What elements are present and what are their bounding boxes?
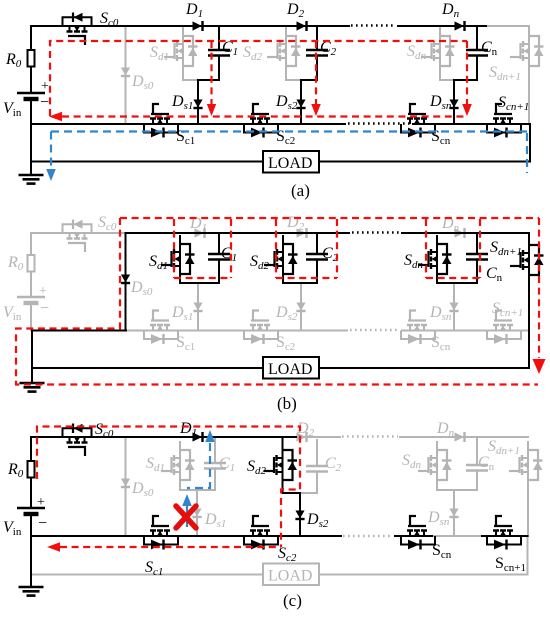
wire Ds1 branch (grey): [197, 283, 199, 331]
wire Ds2 branch (grey): [300, 283, 302, 331]
wire: C2 bottom stub: [316, 260, 318, 284]
diode D2 (inactive): [297, 228, 307, 238]
transistor Scn+1: [487, 104, 521, 138]
capacitor C1: [208, 254, 230, 260]
transistor Sc1: [144, 104, 178, 138]
ellipsis top rail: [352, 231, 400, 233]
wire: Sd1 to C1 bottom: [180, 282, 219, 284]
capacitor C1: [208, 50, 230, 56]
wire: bottom bus right: [319, 367, 529, 369]
red path: left+bottom loop: [16, 218, 538, 385]
wire: C2 bottom to Ds2: [301, 56, 317, 125]
ellipsis top rail: [351, 24, 396, 26]
wire: bus left: [32, 330, 126, 332]
wire: load row right (grey): [319, 574, 528, 576]
wire: Ds1 branch (grey): [196, 490, 198, 536]
battery Vin: [17, 93, 45, 99]
red box celln: [426, 219, 480, 278]
wire top right (grey): [486, 25, 529, 27]
transistor Scn+1 (inactive): [487, 311, 521, 345]
transistor Sd1 (inactive): [161, 441, 195, 489]
resistor R0 (grey): [28, 255, 35, 272]
red path bottom c: [60, 546, 281, 548]
transistor Sc0 (inactive): [63, 220, 92, 253]
svg-text:LOAD: LOAD: [268, 568, 312, 585]
wire: right leg to load row (grey): [527, 536, 529, 575]
diode Dn (inactive): [455, 228, 465, 238]
wire: Sd1 bottom (grey): [180, 489, 215, 490]
red arrow down cell2: [311, 104, 321, 116]
diode Dsn (inactive): [449, 303, 458, 312]
ground: [19, 175, 44, 184]
diode D1 c: [193, 432, 203, 442]
wire: bus right (grey): [402, 330, 529, 332]
diode Ds1: [193, 100, 202, 109]
wire: middle bus left: [31, 123, 345, 125]
wire: C2 top stub: [316, 233, 318, 254]
wire: C2 bottom stub (grey): [316, 472, 318, 494]
wire: left rail to battery: [30, 67, 32, 94]
wire: top rail right: [402, 232, 529, 234]
diode Ds1 (inactive): [192, 509, 201, 518]
wire: Cn top stub (grey): [476, 437, 478, 465]
svg-text:LOAD: LOAD: [268, 155, 312, 172]
red path c: [37, 427, 300, 548]
diode Ds0 (inactive): [121, 479, 130, 488]
wire: Sdn+1 top stub: [528, 233, 530, 238]
diode Dsn (inactive): [449, 509, 458, 518]
transistor Sc2 (inactive): [244, 311, 278, 345]
red path: return bus: [62, 115, 467, 117]
resistor R0 c: [28, 461, 35, 478]
red path: right drop: [538, 218, 540, 358]
blue path: left drop: [50, 132, 52, 169]
wire: C1 bottom stub: [218, 260, 220, 284]
red drop celln: [466, 41, 468, 104]
blue path lower c: [186, 506, 188, 529]
wire: left rail upper (grey): [30, 233, 32, 255]
wire: bus right mid (grey): [432, 535, 482, 537]
diode Ds0 (inactive): [121, 68, 130, 77]
wire: Cn top stub: [476, 233, 478, 254]
capacitor C1 (inactive): [204, 463, 226, 469]
blue arrow down: [46, 169, 56, 181]
wire: Sd2 to C2 bottom: [283, 282, 317, 284]
ground b: [20, 383, 45, 392]
blue path upper c: [187, 443, 210, 488]
wire: C1 top stub: [218, 26, 220, 50]
wire: C1 top stub (grey): [214, 437, 216, 463]
wire Sdn+1 bottom (grey): [528, 75, 530, 124]
diode D2: [297, 21, 307, 31]
svg-text:LOAD: LOAD: [268, 361, 312, 378]
wire: C1 top stub: [218, 233, 220, 254]
red path: top rail: [120, 217, 539, 219]
capacitor C2: [306, 254, 328, 260]
svg-text:(c): (c): [283, 591, 302, 610]
transistor Sc1 c: [144, 516, 178, 550]
transistor Sd2 c: [264, 441, 298, 489]
wire: Sd2 top stub: [282, 437, 284, 441]
red arrow down cell1: [207, 104, 216, 116]
transistor Scn: [401, 104, 435, 138]
wire: left rail lower c: [30, 514, 32, 587]
svg-text:−: −: [40, 94, 49, 111]
load box (inactive): [263, 564, 319, 586]
wire: top rail left: [31, 25, 349, 27]
wire: Cn bottom stub (grey): [476, 471, 478, 491]
diode D1: [193, 21, 203, 31]
capacitor Cn (inactive): [466, 465, 488, 471]
svg-text:+: +: [41, 79, 49, 94]
transistor Sc0: [63, 13, 92, 46]
wire: LOAD to ground rail: [31, 161, 263, 163]
wire: middle bus right: [413, 123, 530, 125]
red drop cell2: [315, 41, 317, 104]
transistor Sd2: [264, 235, 298, 283]
wire Dsn branch (grey): [453, 283, 455, 331]
blue path: bus: [51, 130, 527, 132]
transistor Sd1: [161, 235, 195, 283]
battery Vin c: [17, 508, 45, 514]
wire: left rail upper c: [30, 437, 32, 461]
wire: C2 top stub: [316, 26, 318, 50]
resistor R0: [28, 50, 35, 67]
ground c: [19, 587, 44, 596]
wire: top rail mid (grey): [296, 436, 340, 438]
svg-text:+: +: [39, 284, 47, 299]
wire: right rail to LOAD: [319, 124, 530, 162]
wire: ground leg: [31, 331, 33, 384]
red arrow left: [49, 112, 62, 121]
transistor Sdn+1 (inactive): [509, 441, 543, 489]
blue arrow up mid: [182, 494, 192, 506]
diode Dn: [455, 21, 465, 31]
transistor Sc2 c: [244, 516, 278, 550]
wire: C2 bottom link (grey): [300, 492, 317, 494]
wire: Sdn bottom (grey): [437, 489, 477, 490]
red path: charge loop: [50, 41, 467, 116]
wire: C1 bottom stub (grey): [214, 469, 216, 491]
wire: Cn top stub: [476, 26, 478, 50]
svg-text:+: +: [37, 495, 45, 510]
diode Dsn: [449, 100, 458, 109]
wire: Cn bottom stub: [476, 260, 478, 284]
wire: left rail lower: [30, 99, 32, 175]
transistor Sdn+1: [510, 236, 544, 284]
diode D2 (inactive): [297, 432, 307, 442]
wire Sd2 bottom (grey): [286, 75, 300, 80]
wire: top rail right: [398, 25, 486, 27]
red arrow left c: [47, 542, 60, 552]
wire: bus left c: [31, 535, 341, 537]
capacitor Cn: [466, 254, 488, 260]
ellipsis bus (grey): [343, 535, 393, 537]
diode Dn (inactive): [455, 432, 465, 442]
transistor Sc2: [244, 104, 278, 138]
wire Sdn bottom (grey): [440, 75, 454, 80]
ellipsis middle bus: [348, 122, 411, 124]
ellipsis bus (grey): [350, 329, 400, 331]
wire: top rail right (grey): [400, 436, 528, 438]
wire: bus under Scn+1: [482, 535, 528, 537]
diode Ds0: [121, 275, 130, 284]
capacitor Cn: [466, 50, 488, 56]
wire: battery to bus (grey): [30, 303, 32, 331]
load box: [263, 357, 319, 379]
wire Ds0 branch (grey): [125, 26, 127, 124]
transistor Sd2 (inactive): [267, 27, 301, 75]
wire: Sdn to Cn bottom: [437, 282, 477, 284]
wire: Cn bottom to Dsn: [454, 56, 477, 125]
capacitor C2 (inactive): [306, 466, 328, 472]
transistor Sd1 (inactive): [164, 27, 198, 75]
svg-text:(a): (a): [291, 181, 310, 200]
wire: bus under Scn: [395, 535, 432, 537]
transistor Sdn: [418, 235, 452, 283]
wire: C1 bottom to Ds1: [198, 56, 219, 125]
diode Ds2 (inactive): [296, 303, 305, 312]
red drop cell1: [210, 41, 212, 104]
wire: top rail left (grey): [31, 232, 126, 234]
wire: Sd2 bottom: [283, 489, 301, 493]
wire Sd1 bottom (grey): [183, 75, 198, 80]
wire: top rail left: [31, 436, 296, 438]
wire: Ds0 branch: [125, 233, 127, 331]
transistor Sc0 c: [63, 424, 92, 457]
wire: top rail mid: [126, 232, 349, 234]
transistor Sdn (inactive): [421, 27, 455, 75]
capacitor C2: [306, 50, 328, 56]
svg-text:−: −: [40, 300, 49, 317]
diode Ds2 c: [295, 511, 304, 520]
red box cell1: [174, 219, 231, 278]
wire: rail to battery (grey): [30, 272, 32, 298]
diode Ds1 (inactive): [193, 303, 202, 312]
wire: bottom bus to LOAD: [32, 367, 263, 369]
transistor Scn c: [401, 516, 435, 550]
wire: left rail upper: [30, 26, 32, 50]
svg-text:−: −: [38, 515, 47, 532]
red arrow down celln: [462, 104, 472, 116]
wire: Ds2 branch: [299, 493, 301, 536]
blue arrow up top: [205, 430, 215, 442]
diode Ds2: [296, 100, 305, 109]
load box: [263, 151, 319, 173]
battery Vin (grey): [17, 297, 45, 303]
red box cell2: [276, 219, 337, 278]
svg-text:(b): (b): [277, 394, 297, 413]
wire: bus mid (grey): [126, 330, 347, 332]
wire: Ds0 branch (grey): [125, 437, 127, 536]
wire: load row left (grey): [31, 574, 263, 576]
wire: Dsn branch (grey): [453, 490, 455, 536]
transistor Scn (inactive): [401, 311, 435, 345]
red arrow down right: [533, 359, 546, 374]
transistor Sc1 (inactive): [144, 311, 178, 345]
wire: C2 top stub (grey): [316, 440, 318, 466]
wire: Sdn+1 to bottom bus: [528, 284, 530, 368]
transistor Sdn+1 (inactive): [510, 27, 544, 75]
diode D1 (inactive): [195, 228, 205, 238]
ellipsis top rail (grey): [342, 435, 398, 437]
red X blocked path: [176, 506, 196, 528]
wire: rail to battery c: [30, 478, 32, 509]
transistor Sdn (inactive): [418, 441, 452, 489]
transistor Scn+1 c: [487, 516, 521, 550]
wire: Sdn+1 bottom (grey): [527, 489, 529, 536]
blue path: right drop: [526, 133, 528, 173]
